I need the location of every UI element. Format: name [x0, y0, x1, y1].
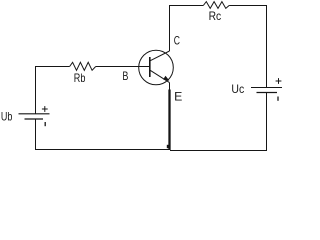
svg-text:Ub: Ub	[1, 109, 13, 123]
wire bottom left	[36, 119, 170, 150]
resistor Rb	[70, 62, 96, 70]
wire top right and right side upper	[229, 6, 266, 88]
svg-text:B: B	[122, 69, 128, 83]
battery Uc	[251, 78, 282, 101]
resistor Rc	[203, 2, 229, 9]
svg-text:Uc: Uc	[231, 82, 244, 96]
wire top from collector to Rc	[170, 6, 204, 52]
wire base	[96, 66, 150, 68]
svg-text:Rc: Rc	[209, 9, 222, 23]
svg-text:E: E	[174, 90, 182, 104]
wire right side lower	[170, 93, 267, 151]
wire emitter vertical	[167, 82, 170, 150]
wire left side upper	[36, 67, 70, 115]
svg-text:Rb: Rb	[74, 71, 86, 85]
battery Ub	[19, 106, 50, 126]
svg-text:C: C	[174, 34, 180, 48]
transistor Q1	[139, 50, 174, 85]
